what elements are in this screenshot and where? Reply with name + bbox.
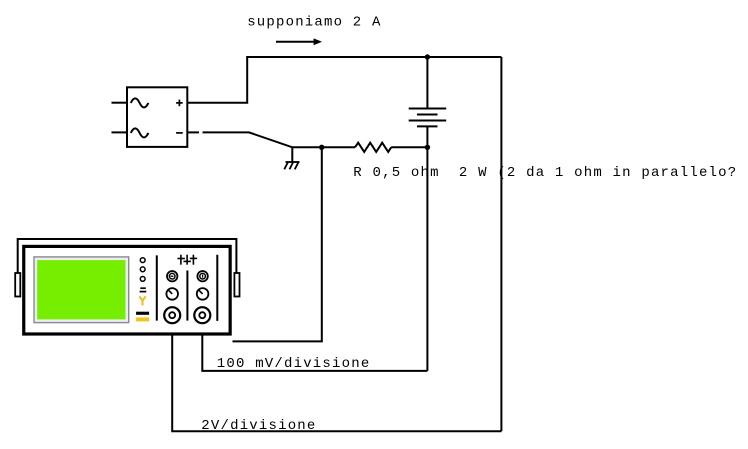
minus sign	[176, 132, 183, 134]
wire battery bottom	[426, 126, 428, 147]
trigger bars icon	[140, 288, 147, 291]
resistor R	[355, 143, 391, 152]
wire resistor to node	[391, 146, 427, 148]
sine symbol upper	[131, 98, 149, 107]
svg-text:100 mV/divisione: 100 mV/divisione	[217, 356, 371, 372]
screen frame	[34, 257, 129, 323]
svg-text:supponiamo 2 A: supponiamo 2 A	[247, 15, 381, 31]
node top junction	[425, 54, 430, 59]
BNC connector right	[194, 307, 210, 323]
wire battery top	[426, 57, 428, 109]
oscilloscope main box	[24, 246, 230, 334]
node battery-resistor junction	[425, 145, 430, 150]
cross icons	[177, 255, 197, 265]
power supply U1 box	[127, 87, 187, 147]
black bar	[136, 312, 149, 315]
svg-text:2V/divisione: 2V/divisione	[201, 418, 316, 434]
panel divider left	[156, 255, 158, 320]
panel divider middle	[186, 271, 188, 321]
yellow bar	[136, 317, 149, 321]
panel divider right	[216, 255, 218, 321]
wire scope side to ground node	[233, 147, 322, 341]
wire input stub upper	[112, 102, 128, 104]
indicator circle 1	[140, 258, 145, 263]
wire 2V channel	[172, 323, 501, 431]
knob mid left	[166, 288, 178, 300]
battery B1	[409, 109, 447, 127]
sine symbol lower	[131, 128, 149, 137]
knob top right	[197, 271, 207, 281]
wire battery node down	[426, 147, 428, 371]
BNC connector left	[164, 307, 180, 323]
plus sign	[176, 100, 183, 107]
indicator circle 2	[140, 267, 145, 272]
wire plus terminal	[187, 57, 247, 103]
wire node to resistor	[322, 146, 355, 148]
wire minus terminal	[187, 132, 321, 147]
node ground junction	[319, 145, 324, 150]
indicator circle 3	[140, 277, 145, 282]
current arrow	[276, 38, 322, 45]
wire top rail	[246, 56, 501, 58]
wire input stub lower	[112, 131, 128, 133]
wire 100mV channel	[202, 323, 427, 371]
oscilloscope left handle	[15, 273, 20, 297]
oscilloscope right handle	[234, 273, 239, 297]
screen green display	[37, 260, 125, 319]
oscilloscope lid	[18, 239, 237, 285]
wire ground stub	[291, 147, 293, 162]
wire right column	[500, 57, 502, 431]
knob mid right	[197, 288, 209, 300]
knob top left	[167, 271, 177, 281]
svg-text:R 0,5 ohm 2 W (2 da 1 ohm in: R 0,5 ohm 2 W (2 da 1 ohm in parallelo?	[353, 165, 737, 181]
yellow Y label	[139, 296, 145, 305]
ground	[284, 162, 299, 169]
